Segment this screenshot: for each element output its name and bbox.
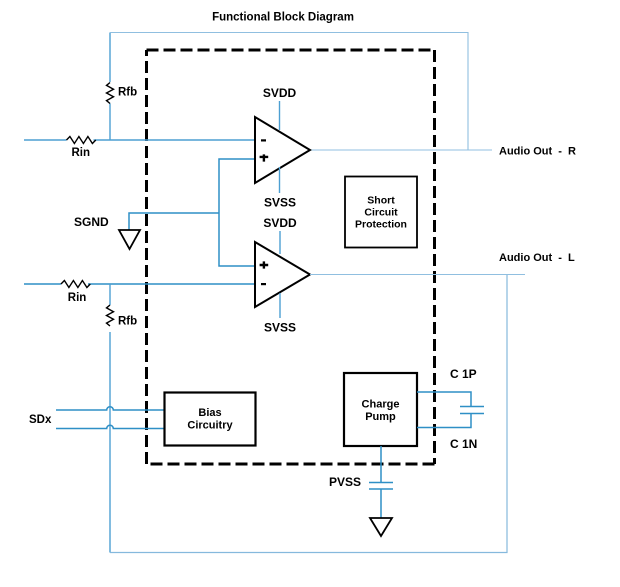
svg-text:Circuitry: Circuitry: [187, 420, 233, 432]
wire: SVDD stub op1: [279, 101, 281, 130]
svg-text:SGND: SGND: [74, 215, 109, 229]
ground symbol PVSS: [370, 518, 392, 536]
capacitor C1: [460, 407, 484, 414]
svg-text:SVDD: SVDD: [263, 86, 297, 100]
capacitor PVSS: [369, 483, 393, 490]
wire: charge pump to PVSS: [380, 446, 382, 518]
svg-text:C 1P: C 1P: [450, 367, 477, 381]
svg-text:SVSS: SVSS: [264, 196, 296, 210]
wire: SDx upper line with hop: [56, 407, 165, 410]
svg-text:SVDD: SVDD: [263, 216, 297, 230]
box: Charge Pump: [344, 373, 417, 446]
box: Bias Circuitry: [165, 393, 256, 446]
op-amp U2 (left channel): [255, 242, 310, 307]
wire: SDx lower line with hop: [56, 425, 165, 428]
svg-text:Pump: Pump: [365, 411, 396, 423]
op1 plus sign: [260, 154, 269, 161]
resistor Rfb (R channel): [107, 82, 114, 103]
svg-text:SDx: SDx: [29, 414, 52, 426]
svg-text:SVSS: SVSS: [264, 321, 296, 335]
svg-text:Rin: Rin: [72, 147, 91, 159]
wire: Rfb R vertical + top feedback: [109, 33, 111, 141]
svg-text:Charge: Charge: [362, 399, 400, 411]
svg-text:Short: Short: [367, 195, 395, 207]
svg-text:PVSS: PVSS: [329, 475, 361, 489]
svg-text:Rfb: Rfb: [118, 87, 137, 99]
resistor Rin (R channel): [67, 137, 96, 144]
svg-text:Functional Block Diagram: Functional Block Diagram: [212, 11, 354, 23]
svg-text:Audio Out - L: Audio Out - L: [499, 252, 575, 264]
op2 minus sign: [261, 283, 266, 285]
op-amp U1 (right channel): [255, 117, 310, 183]
svg-text:Audio Out - R: Audio Out - R: [499, 145, 576, 157]
wire: plus input rail x=219: [219, 159, 255, 266]
wire: charge pump to C1 bottom: [417, 414, 471, 428]
box: Short Circuit Protection: [345, 177, 417, 248]
wire: SVDD stub op2: [279, 231, 281, 254]
wire: SGND branch: [129, 213, 219, 230]
svg-text:Bias: Bias: [198, 407, 221, 419]
resistor Rfb (L channel): [107, 305, 114, 326]
svg-text:Circuit: Circuit: [364, 207, 398, 219]
ground symbol SGND: [119, 230, 140, 249]
wire: L feedback bottom run to Audio Out L node: [110, 275, 507, 553]
wire: SVSS stub op1: [279, 167, 281, 193]
wire: Rfb L vertical + bottom feedback: [109, 284, 111, 553]
wire: L-channel input line: [24, 283, 255, 285]
resistor Rin (L channel): [61, 281, 90, 288]
svg-text:Protection: Protection: [355, 219, 407, 231]
wire: SVSS stub op2: [279, 293, 281, 318]
wire: R-channel input line: [24, 139, 255, 141]
wire: R feedback top run to Audio Out R node: [110, 33, 468, 151]
svg-text:Rin: Rin: [68, 292, 87, 304]
svg-text:C 1N: C 1N: [450, 437, 477, 451]
op2 plus sign: [260, 261, 269, 268]
op1 minus sign: [261, 139, 266, 141]
wire: op2 output / Audio Out L: [310, 274, 525, 276]
wire: charge pump to C1 top: [417, 392, 471, 407]
IC boundary dashed box: [147, 49, 435, 52]
wire: op1 output / Audio Out R: [310, 149, 492, 151]
svg-text:Rfb: Rfb: [118, 316, 137, 328]
